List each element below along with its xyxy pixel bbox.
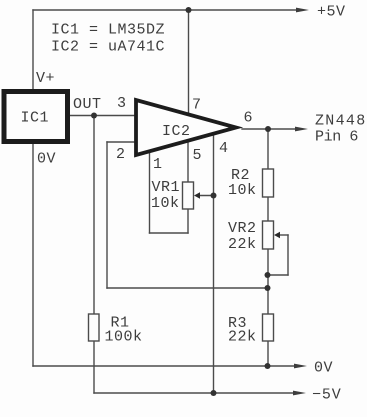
node: R3 / 0V rail junction	[265, 363, 271, 369]
wire feedback horizontal to divider node	[107, 287, 268, 289]
wire pin 5 vertical to VR1 top	[187, 141, 189, 182]
node: VR2 wiper / divider junction	[265, 272, 271, 278]
wire 0V rail	[33, 365, 295, 367]
resistor R1 body	[89, 314, 100, 341]
wire output node down to R2	[267, 129, 269, 169]
IC1 box (LM35DZ)	[4, 92, 68, 142]
wire pin 2 feedback vertical drop	[106, 142, 108, 288]
wire VR1 loop bottom	[150, 232, 189, 234]
svg-text:22k: 22k	[228, 329, 257, 346]
svg-text:10k: 10k	[228, 182, 257, 199]
svg-text:100k: 100k	[105, 329, 143, 346]
svg-text:Pin 6: Pin 6	[315, 129, 358, 146]
arrow ZN448 Pin 6	[295, 127, 308, 132]
wire pin 2 horizontal from op-amp to feedback drop	[107, 141, 134, 143]
wire pin 4 vertical to -5V rail	[213, 134, 215, 393]
arrow 0V	[294, 364, 307, 369]
wire VR2 wiper loop right vertical	[287, 235, 289, 275]
svg-text:IC2: IC2	[162, 123, 191, 140]
potentiometer VR2 body	[263, 221, 274, 249]
svg-text:VR1: VR1	[152, 179, 181, 196]
wire VR2 bottom through nodes to R3 top	[267, 249, 269, 314]
svg-text:0V: 0V	[314, 360, 333, 377]
wire R2 bottom to VR2 top	[267, 197, 269, 221]
wire VR1 bottom vertical	[187, 209, 189, 233]
wire R3 bottom to 0V rail	[267, 341, 269, 366]
svg-text:4: 4	[219, 140, 229, 157]
svg-text:ZN448: ZN448	[315, 113, 367, 130]
svg-text:5: 5	[193, 147, 203, 164]
svg-text:2: 2	[116, 146, 126, 163]
VR1 wiper arrow	[194, 192, 200, 199]
wire OUT from IC1 to op-amp pin 3	[70, 115, 134, 117]
svg-text:+5V: +5V	[317, 4, 346, 21]
svg-text:6: 6	[244, 110, 254, 127]
wire VR2 wiper loop to divider	[268, 274, 289, 276]
arrow -5V	[293, 391, 306, 396]
wire R1 bottom to -5V rail corner	[93, 341, 95, 393]
svg-text:IC1 = LM35DZ: IC1 = LM35DZ	[51, 22, 165, 39]
node: VR1 wiper / pin4 junction	[211, 193, 217, 199]
node: OUT / R1 junction	[91, 113, 97, 119]
svg-text:0V: 0V	[37, 151, 56, 168]
node: output / R2 junction	[265, 126, 271, 132]
wire -5V rail	[94, 392, 294, 394]
wire VR2 wiper stub	[280, 234, 289, 236]
svg-text:−5V: −5V	[312, 387, 342, 404]
wire 0V vertical from IC1 bottom to 0V rail	[32, 144, 34, 366]
wire VR1 wiper stub to pin 4 line	[199, 195, 214, 197]
VR2 wiper arrow	[274, 232, 280, 239]
arrow +5V	[296, 8, 309, 13]
potentiometer VR1 body	[183, 182, 194, 209]
svg-text:1: 1	[153, 156, 163, 173]
svg-text:V+: V+	[36, 70, 55, 87]
svg-text:3: 3	[117, 95, 127, 112]
wire op-amp output to ZN448 arrow	[242, 128, 297, 130]
resistor R2 body	[263, 169, 274, 197]
wire pin 1 vertical	[149, 152, 151, 234]
svg-text:7: 7	[192, 97, 202, 114]
wire R1 branch vertical from OUT node down to R1	[93, 116, 95, 315]
svg-text:10k: 10k	[151, 195, 180, 212]
node: pin4 / -5V rail junction	[211, 390, 217, 396]
node: feedback / divider junction	[265, 285, 271, 291]
resistor R3 body	[263, 314, 274, 341]
svg-text:22k: 22k	[228, 236, 257, 253]
wire +5V top rail	[33, 9, 297, 11]
node: +5V / pin7 junction	[186, 7, 192, 13]
op-amp U1 triangle IC2	[136, 100, 236, 155]
wire V+ vertical from +5V rail to IC1 top	[32, 10, 34, 89]
wire pin 7 vertical from +5V rail to op-amp top	[188, 10, 190, 115]
svg-text:VR2: VR2	[228, 220, 257, 237]
svg-text:IC1: IC1	[21, 110, 50, 127]
svg-text:OUT: OUT	[73, 96, 102, 113]
svg-text:IC2 = uA741C: IC2 = uA741C	[51, 39, 165, 56]
